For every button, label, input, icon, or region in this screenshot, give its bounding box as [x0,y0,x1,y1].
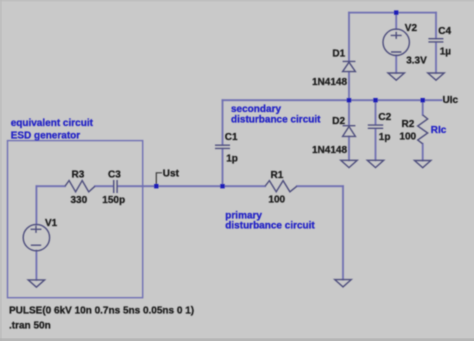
capacitor C4 [428,39,443,42]
net label tick Ust [156,173,162,184]
value 330 of R3 [71,195,88,206]
capacitor C3 [114,180,117,193]
svg-text:1N4148: 1N4148 [312,77,347,88]
value 150p of C3 [102,195,125,206]
ground under R1 branch [335,280,351,287]
comment RIc [431,125,447,136]
svg-text:C2: C2 [378,112,391,123]
svg-text:100: 100 [399,132,416,143]
wire V2 bottom to ground [395,55,397,73]
wire D1 anode to bus [348,72,350,100]
wire C4 top stub [435,13,437,39]
wire main horizontal V1 to R3 [37,185,66,187]
svg-text:C3: C3 [108,170,121,181]
capacitor C1 [215,145,230,148]
svg-text:UIc: UIc [443,95,459,106]
label V2 [405,23,418,34]
value 1N4148 of D1 [312,77,347,88]
svg-text:ESD generator: ESD generator [11,130,81,141]
svg-text:3.3V: 3.3V [406,55,427,66]
resistor R3 [65,181,95,192]
resistor R2 [418,115,428,144]
svg-text:D2: D2 [332,116,345,127]
svg-text:R1: R1 [271,170,284,181]
diode D2 [343,126,356,137]
box equivalent circuit ESD generator [8,141,143,298]
comment primary [225,211,262,222]
svg-text:R3: R3 [72,170,85,181]
wire bus down to C1 [222,100,224,145]
comment ESD generator [11,130,81,141]
ground under C4 [428,73,444,80]
wire bus to R2 [422,100,424,115]
wire R1 to right corner [297,185,343,187]
wire top rail [349,12,436,14]
ground under V2 [388,73,404,80]
value 1N4148 of D2 [312,145,347,156]
label R1 [271,170,284,181]
comment disturbance circuit secondary [231,115,321,126]
node R2 bus junction [421,98,425,102]
node D1 bus junction [347,98,351,102]
wire C1 down to node [222,149,224,186]
node C1 junction [220,184,224,188]
svg-text:V2: V2 [405,23,418,34]
svg-text:disturbance circuit: disturbance circuit [225,221,315,232]
wire C4 bottom to ground [435,42,437,73]
ground under D2 [341,160,357,167]
directive .tran [9,320,51,331]
svg-text:150p: 150p [102,195,125,206]
voltage source V2 [383,29,409,55]
label R2 [402,119,415,130]
svg-text:1p: 1p [379,132,391,143]
wire D1 cathode to top rail [348,13,350,61]
value 100 of R1 [268,195,285,206]
label D1 [332,49,345,60]
wire R2 to ground [422,144,424,161]
wire C3 to R1 through nodes Ust and C1 [118,185,265,187]
label D2 [332,116,345,127]
svg-text:PULSE(0 6kV 10n 0.7ns 5ns 0.05: PULSE(0 6kV 10n 0.7ns 5ns 0.05ns 0 1) [9,305,194,316]
wire right corner down to ground [342,186,344,279]
capacitor C2 [368,125,383,128]
value 100 of R2 [399,132,416,143]
svg-text:disturbance circuit: disturbance circuit [231,115,321,126]
wire V1 top [35,186,37,224]
svg-text:R2: R2 [402,119,415,130]
svg-text:C1: C1 [225,132,238,143]
node C2 bus junction [373,98,377,102]
comment disturbance circuit primary [225,221,315,232]
svg-text:.tran 50n: .tran 50n [9,320,51,331]
value 1u of C4 [440,46,452,57]
node V2 top rail junction [394,10,398,14]
svg-text:1N4148: 1N4148 [312,145,347,156]
diode D1 [343,61,356,71]
svg-text:D1: D1 [332,49,345,60]
comment equivalent circuit [11,118,94,129]
net label Ust [163,169,180,180]
wire bus to D2 [348,100,350,125]
comment secondary [231,104,281,115]
wire bus to C2 [375,100,377,124]
node Ust junction [154,184,158,188]
svg-text:1p: 1p [226,154,238,165]
wire V2 top stub [395,13,397,30]
wire D2 to ground [348,137,350,161]
directive PULSE [9,305,194,316]
label C4 [438,26,451,37]
ground under V1 [28,280,44,287]
wire V1 bottom to ground [35,251,37,280]
label V1 [45,218,58,229]
voltage source V1 [23,224,49,250]
net label UIc [443,95,459,106]
resistor R1 [265,181,297,192]
wire secondary bus [223,99,442,101]
label C2 [378,112,391,123]
wire C2 to ground [375,129,377,160]
svg-text:Ust: Ust [163,169,180,180]
ground under R2 [415,161,431,168]
label C3 [108,170,121,181]
value 1p of C2 [379,132,391,143]
svg-text:secondary: secondary [231,104,281,115]
wire R3 to C3 [95,185,113,187]
svg-text:equivalent circuit: equivalent circuit [11,118,94,129]
value 3.3V of V2 [406,55,427,66]
value 1p of C1 [226,154,238,165]
svg-text:100: 100 [268,195,285,206]
ground under C2 [367,160,383,167]
svg-text:V1: V1 [45,218,58,229]
svg-text:1µ: 1µ [440,46,452,57]
svg-text:330: 330 [71,195,88,206]
svg-text:C4: C4 [438,26,451,37]
label C1 [225,132,238,143]
svg-text:RIc: RIc [431,125,447,136]
label R3 [72,170,85,181]
